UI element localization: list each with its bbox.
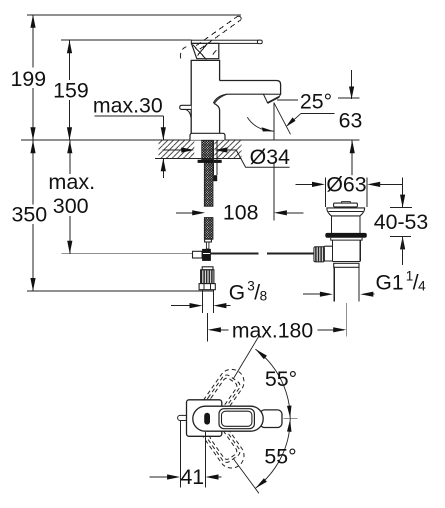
svg-text:max.: max.: [48, 169, 95, 194]
black dot: [204, 413, 210, 425]
counter/basin reference line (y=140.2): [21, 139, 360, 141]
waste flange bell: [327, 208, 365, 216]
faucet centerline extension: [206, 313, 208, 341]
dim O63: [324, 178, 326, 207]
svg-text:G11/4: G11/4: [376, 269, 427, 295]
svg-text:300: 300: [53, 194, 89, 218]
dim 350 vertical (x=33): [32, 140, 34, 204]
pop-up knob (top view, left): [178, 415, 188, 420]
svg-text:max.180: max.180: [232, 320, 313, 343]
svg-text:159: 159: [53, 79, 89, 103]
aerator outlet: [263, 94, 280, 103]
dim 108: [176, 212, 193, 214]
label 25deg: [297, 90, 337, 109]
svg-text:41: 41: [180, 465, 204, 489]
lever plate double outline: [219, 409, 254, 429]
63 height reference line: [277, 99, 298, 101]
rod cap: [205, 239, 212, 242]
dim G1 1/4: [303, 293, 320, 295]
waste lower body: [331, 240, 333, 246]
hose pipe: [202, 290, 204, 313]
dim 159 vertical (x=69.5): [69, 40, 71, 81]
55deg radial lines: [234, 335, 260, 379]
cross fitting: [193, 251, 203, 258]
dim 63 arrows: [351, 70, 353, 99]
waste centerline: [345, 303, 347, 337]
svg-text:199: 199: [11, 67, 47, 91]
350 bottom reference line (y=291): [27, 290, 213, 292]
knurled adjuster knob: [314, 247, 325, 262]
25 deg water lines: [273, 102, 275, 140]
step below seal: [331, 238, 362, 240]
svg-text:55°: 55°: [265, 367, 297, 391]
pop-up rod knob (left of body): [180, 105, 192, 109]
25 deg swing arc: [247, 117, 273, 131]
faucet body: [191, 60, 219, 133]
dashed handle rotated up 55deg: [188, 364, 249, 436]
base plinth: [190, 133, 225, 140]
arc end arrowheads: [255, 349, 267, 359]
svg-text:350: 350: [11, 202, 47, 226]
swivel arc: [255, 349, 290, 488]
dim max.300 vertical (x=69.8): [69, 140, 71, 174]
waste upper body: [330, 216, 332, 233]
label O63: [327, 175, 366, 193]
reference line top (lever raised height, y=14.8): [27, 14, 241, 16]
reference line lever height (y=40.2): [61, 39, 191, 41]
label 159: [51, 80, 91, 100]
waste body bottom + nut: [332, 260, 360, 262]
mounting washer: [198, 160, 222, 163]
dim G3/8: [171, 305, 190, 307]
108 right extension line (from aerator): [273, 163, 275, 221]
svg-text:Ø34: Ø34: [250, 145, 290, 169]
svg-text:40-53: 40-53: [374, 210, 428, 234]
pull rod below counter: [213, 141, 215, 176]
rod stub to knob: [311, 253, 314, 255]
side port: [323, 246, 333, 261]
braided hose through counter: [202, 140, 213, 239]
dashed raised lever: [180, 16, 241, 58]
lever bar: [191, 40, 259, 43]
spout top: [220, 81, 281, 95]
rubber seal (black): [325, 233, 367, 238]
hose connector below: [202, 267, 213, 270]
dashed handle rotated down 55deg: [188, 401, 249, 473]
svg-text:63: 63: [339, 109, 363, 133]
handle capsule: [260, 410, 282, 428]
dim O34: arrows at counter hole: [163, 149, 183, 151]
lever bar end cap: [257, 40, 262, 44]
svg-text:55°: 55°: [264, 444, 296, 468]
lever base: [191, 43, 218, 58]
25deg leader: [301, 112, 334, 114]
dim 41: [179, 421, 181, 488]
svg-text:Ø63: Ø63: [326, 173, 366, 197]
tailpipe: [333, 267, 335, 301]
horizontal pop-up linkage rod: [211, 252, 258, 254]
dim max.180: [210, 329, 229, 331]
body square: [187, 400, 222, 437]
arc centerline tick: [284, 418, 298, 420]
svg-text:25°: 25°: [300, 89, 332, 113]
dim 40-53: [402, 177, 404, 207]
spout underside: [213, 94, 263, 103]
mid arrowheads: [287, 406, 292, 418]
label 199: [10, 68, 48, 88]
thin rod: [206, 242, 209, 249]
dim 199 vertical (x=33): [32, 15, 34, 68]
svg-text:max.30: max.30: [93, 93, 163, 117]
waste plug knob: [342, 202, 351, 204]
max.30 arrows at counter: [162, 116, 164, 140]
max300 bottom reference line / rod line (y=253.7): [61, 253, 192, 255]
counter bottom line: [155, 157, 242, 159]
svg-text:108: 108: [223, 201, 259, 225]
